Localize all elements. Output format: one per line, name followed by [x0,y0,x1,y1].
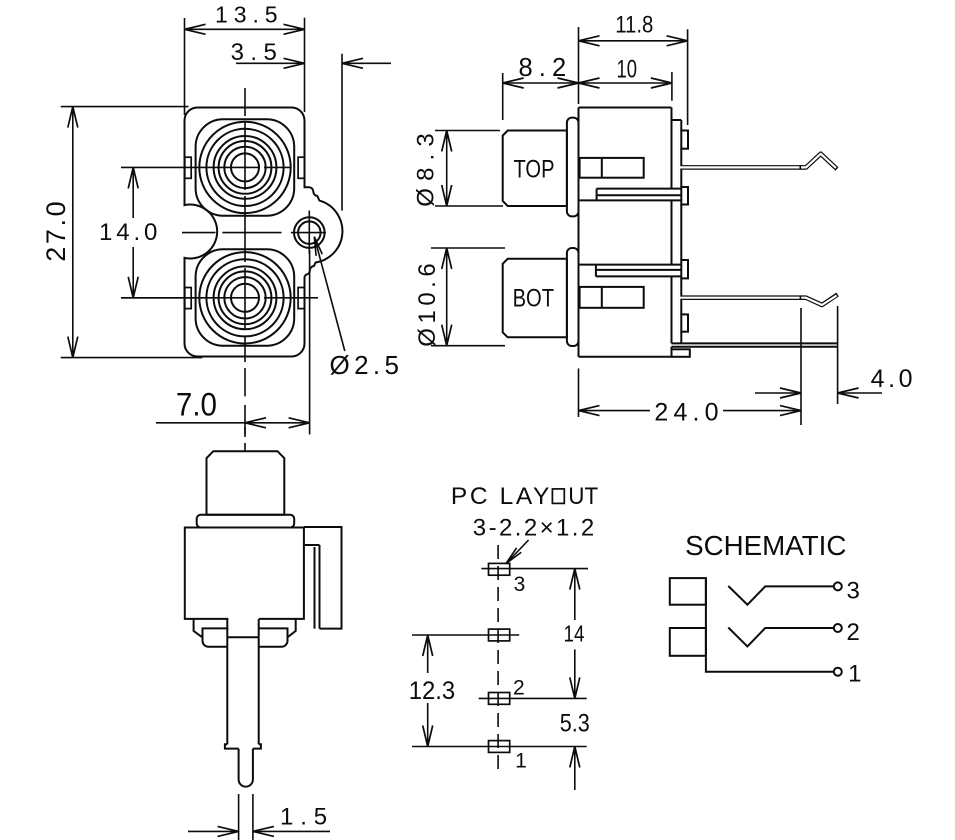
side mounting tabs [185,157,305,308]
svg-text:1: 1 [515,750,527,773]
svg-text:12.3: 12.3 [409,677,456,705]
FRONT-VIEW [41,2,399,435]
square O glyph [552,489,564,504]
bottom bell flange [567,248,579,346]
dim 3.5 [231,39,391,211]
lower rounded skirt [203,628,288,646]
bottom connector squircle flange [196,249,295,345]
svg-text:24.0: 24.0 [654,399,718,427]
svg-text:11.8: 11.8 [615,12,653,39]
dim 5.3 [560,709,590,790]
vertical centerline [244,88,246,435]
dim dia 8.3 [412,131,503,207]
svg-text:Ø2.5: Ø2.5 [330,350,400,380]
terminal 3 circle [834,582,842,590]
SCHEMATIC-SECTION [670,530,862,687]
foot step [672,349,690,357]
bottom cylinder BOT [503,259,567,338]
jack body rect bottom [670,628,706,656]
svg-text:SCHEMATIC: SCHEMATIC [685,530,846,561]
pad 2 [489,693,510,705]
svg-text:1.5: 1.5 [280,803,327,830]
svg-text:27.0: 27.0 [41,201,71,261]
top pin lead [678,154,837,170]
center pin shaft [227,619,258,744]
svg-text:14.0: 14.0 [99,219,157,246]
dim 4.0 [755,306,913,404]
dim 14 [564,569,585,699]
top connector circles [199,122,290,213]
bottom connector circles [199,252,290,343]
svg-text:TOP: TOP [514,156,555,184]
right cover plate [672,120,682,343]
top connector squircle flange [196,119,295,215]
top cylinder TOP [503,131,567,207]
ground strip pin [672,343,838,346]
middle dashed centerline [182,232,326,234]
top circle centerline [121,166,291,168]
bottom pin lead [678,295,838,306]
top bell flange [567,118,579,217]
shaft flare [225,744,261,748]
dim 8.2 [503,54,579,120]
svg-text:3: 3 [514,573,526,596]
pin tip [239,749,253,787]
dim 7.0 [156,250,310,435]
jack body rect top [670,578,706,605]
switch contact 2 [728,628,834,647]
dim dia 10.6 [414,248,505,347]
terminal 2 circle [834,624,842,632]
svg-text:BOT: BOT [513,284,555,312]
dim 24.0 [579,308,802,427]
right tabs [681,131,688,332]
body block [185,528,304,619]
right plate edge-on [304,527,342,629]
dim 27.0 [41,107,202,358]
svg-text:Ø10.6: Ø10.6 [414,263,441,346]
common bus wire [706,578,834,672]
svg-text:7.0: 7.0 [176,387,217,423]
side body block [579,108,672,357]
svg-text:2: 2 [847,619,860,646]
leader to pad 3 [506,540,529,564]
switch contact 3 [728,586,834,605]
top switch strip [580,189,682,201]
hole cross line [308,211,310,255]
pad 3 [489,563,510,575]
plug barrel up [207,451,285,515]
dim 13.5 [185,2,305,116]
svg-text:13.5: 13.5 [215,2,278,28]
pad mid [489,629,510,641]
leader and label 2.5 dia [314,237,399,380]
svg-text:14: 14 [564,621,585,647]
front body outline [185,108,343,357]
svg-text:3: 3 [847,577,860,604]
svg-text:UT: UT [568,483,598,510]
dim 14.0 [99,167,202,297]
pad 1 [489,741,510,753]
svg-text:3.5: 3.5 [231,39,277,66]
bottom circle centerline [121,297,318,299]
lower skirt chamfers [194,619,296,637]
dim 1.5 [188,794,330,840]
dim 12.3 [409,635,456,747]
top contact slot [580,158,644,178]
svg-text:4.0: 4.0 [871,365,913,393]
svg-text:Ø8.3: Ø8.3 [412,133,439,206]
dashed pad centerline [497,545,499,770]
svg-text:5.3: 5.3 [560,709,590,737]
bell flange edge-on [197,515,295,528]
hole boss circle 2.5 [294,217,325,248]
bottom switch strip [580,265,682,277]
terminal 1 circle [834,668,842,676]
SIDE-VIEW [412,12,912,427]
dim 11.8 [579,12,688,125]
svg-text:PC LAY: PC LAY [451,483,550,510]
dim 10 [579,56,672,101]
centerline above [244,427,246,452]
svg-text:2: 2 [513,677,525,700]
BOTTOM-VIEW [185,427,342,840]
svg-text:8.2: 8.2 [519,54,567,82]
svg-text:10: 10 [617,56,638,84]
svg-text:3-2.2×1.2: 3-2.2×1.2 [473,515,594,542]
PC-LAYOUT [409,483,599,790]
bottom contact slot [580,287,644,308]
svg-text:1: 1 [848,660,861,687]
